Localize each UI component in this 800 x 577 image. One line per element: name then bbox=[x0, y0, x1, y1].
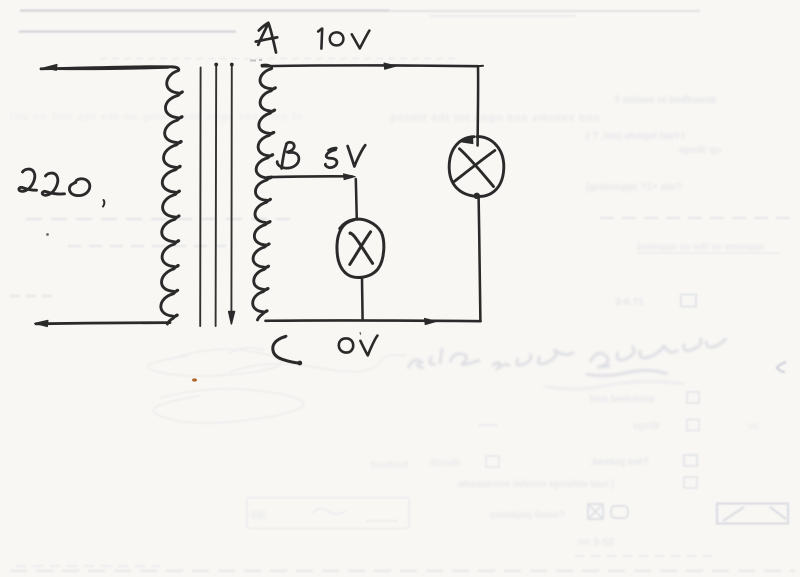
svg-text:bsvhsd: bsvhsd bbox=[371, 459, 408, 471]
lamp L2 (middle) envelope bbox=[337, 219, 384, 277]
transformer core line 3 bbox=[230, 64, 232, 323]
svg-text:vgeW: vgeW bbox=[633, 421, 660, 432]
svg-text:ahoaaeoos lohnoo epnshta taui: ahoaaeoos lohnoo epnshta taui | bbox=[458, 479, 614, 490]
wire: bottom rail C bbox=[266, 319, 481, 322]
lamp L2 X stroke 1 bbox=[350, 233, 373, 263]
wire: B branch vertical upper bbox=[356, 179, 357, 220]
lamp L1 bottom junction blob bbox=[474, 193, 480, 199]
label B top bump bbox=[287, 142, 295, 152]
svg-text:ve: ve bbox=[748, 421, 760, 432]
wire: node B tap bbox=[268, 175, 353, 178]
label B left stroke bbox=[282, 144, 287, 169]
svg-text:no 3-S2: no 3-S2 bbox=[578, 537, 615, 548]
svg-text:.beeluq eet?: .beeluq eet? bbox=[590, 457, 648, 468]
label C bbox=[273, 336, 300, 363]
label B lower bowl bbox=[277, 152, 299, 168]
core line 3 top blob bbox=[230, 63, 234, 67]
label A crossbar bbox=[256, 37, 277, 41]
transformer primary winding bbox=[161, 67, 183, 324]
label 5V letter V bbox=[348, 145, 366, 166]
lamp L2 top-left overlap hook bbox=[340, 220, 354, 229]
label 220 digit 2a bbox=[19, 169, 37, 191]
wire: right branch upper vertical bbox=[476, 66, 479, 145]
corner overshoot tick bbox=[479, 65, 484, 67]
svg-text:6B: 6B bbox=[251, 508, 267, 522]
arrowhead on primary top lead (points left) bbox=[44, 64, 58, 70]
core line 3 bottom arrow blob bbox=[229, 312, 235, 325]
arrowhead on primary bottom lead (points left) bbox=[35, 320, 49, 326]
label 220 comma bbox=[103, 200, 104, 207]
svg-text:pnimit edt tot nego ens emutes: pnimit edt tot nego ens emutes bns bbox=[390, 112, 601, 124]
arrowhead on bottom rail (points right) bbox=[425, 318, 437, 324]
wire: node A top rail bbox=[262, 64, 478, 67]
svg-text:beteqqe to edt to emoqqe: beteqqe to edt to emoqqe bbox=[637, 241, 765, 253]
label 220 digit 2b bbox=[42, 173, 64, 195]
svg-text:3-0.?1: 3-0.?1 bbox=[615, 297, 644, 308]
wire: B branch vertical lower bbox=[361, 279, 364, 320]
label 220 digit 0 bbox=[69, 179, 89, 196]
label OV apostrophe bbox=[359, 333, 361, 335]
arrowhead on A rail (points right) bbox=[384, 63, 397, 69]
label OV letter O bbox=[339, 338, 353, 352]
svg-text:apoW qu: apoW qu bbox=[679, 145, 721, 156]
svg-text:ilimeR: ilimeR bbox=[430, 458, 461, 469]
lamp L1 top-left arrow flourish bbox=[459, 136, 473, 143]
wire: right branch lower vertical bbox=[479, 197, 481, 321]
svg-text:enodqeq liswe?: enodqeq liswe? bbox=[490, 510, 565, 521]
label OV letter V bbox=[360, 336, 377, 356]
lamp L1 (right) envelope bbox=[449, 137, 504, 197]
svg-text:( ? .lov) ahoqet bart I: ( ? .lov) ahoqet bart I bbox=[586, 131, 685, 142]
core line 2 top blob bbox=[214, 63, 218, 67]
transformer secondary winding bbox=[253, 65, 276, 320]
lamp L1 X stroke 1 bbox=[460, 149, 494, 187]
label 10V letter V bbox=[352, 31, 370, 49]
arrowhead on B tap (points right) bbox=[344, 174, 356, 180]
stray dot left bbox=[46, 233, 49, 236]
svg-text:(gnitsoqqo ?1+ eto?: (gnitsoqqo ?1+ eto? bbox=[586, 182, 682, 193]
label C end blob bbox=[297, 361, 302, 366]
label A bbox=[258, 23, 276, 53]
transformer core line 1 bbox=[199, 68, 201, 327]
lamp L2 X stroke 2 bbox=[350, 232, 371, 265]
transformer core line 2 bbox=[215, 64, 218, 326]
wire: primary bottom lead bbox=[36, 323, 170, 324]
svg-text:? noises ni bedhoesb: ? noises ni bedhoesb bbox=[614, 95, 716, 106]
label 10V digit 1 bbox=[318, 29, 322, 49]
label 5V digit 5 bbox=[325, 148, 337, 167]
lamp L1 X stroke 2 bbox=[454, 151, 495, 182]
label 10V digit 0 bbox=[330, 32, 344, 45]
wire: primary top lead bbox=[41, 67, 173, 69]
ink layer bbox=[19, 23, 504, 382]
orange speck bbox=[192, 378, 197, 381]
svg-text:bns bedotsea: bns bedotsea bbox=[590, 394, 655, 405]
